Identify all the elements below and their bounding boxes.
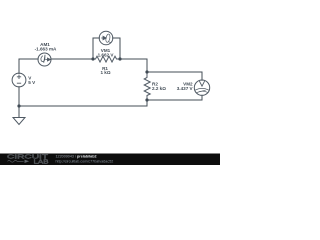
wire VM2 bottom down then left to node D bbox=[147, 95, 202, 100]
wire V1 top to AM1 left bbox=[19, 59, 38, 74]
watermark bar bbox=[0, 154, 220, 166]
resistor R2 bbox=[144, 72, 150, 100]
wire VM1 right lead down to node B bbox=[113, 38, 120, 59]
ground bbox=[13, 118, 25, 125]
svg-text:1 kΩ: 1 kΩ bbox=[100, 70, 110, 75]
svg-text:-1.663 mA: -1.663 mA bbox=[35, 47, 57, 52]
svg-text:1.662 V: 1.662 V bbox=[98, 52, 115, 57]
svg-text:5 V: 5 V bbox=[28, 80, 36, 85]
wire node D jog down and left to ground node bbox=[19, 100, 147, 106]
resistor R1 bbox=[93, 56, 120, 62]
node A junction dot bbox=[91, 57, 94, 60]
voltmeter VM1 bbox=[99, 31, 113, 45]
ground node junction dot bbox=[17, 104, 20, 107]
node B junction dot bbox=[118, 57, 121, 60]
wire node C right to VM2 top bbox=[147, 72, 202, 80]
svg-text:3.437 V: 3.437 V bbox=[177, 86, 194, 91]
node D junction dot bbox=[145, 98, 148, 101]
svg-text:http://circuitlab.com/c77batva: http://circuitlab.com/c77batva6ac52 bbox=[56, 159, 114, 163]
wire ground stem bbox=[18, 106, 20, 118]
svg-text:122009043 / prelab/lab2: 122009043 / prelab/lab2 bbox=[56, 154, 97, 158]
svg-text:LAB: LAB bbox=[34, 160, 49, 166]
ammeter AM1 bbox=[38, 53, 51, 66]
svg-text:2.2 kΩ: 2.2 kΩ bbox=[152, 86, 166, 91]
voltmeter VM2 bbox=[194, 80, 209, 95]
CircuitLab logo bbox=[7, 154, 49, 165]
wire V1 bottom to ground node bbox=[18, 87, 20, 106]
wire node A up to VM1 left lead bbox=[93, 38, 99, 59]
wire node B right then down to node C bbox=[120, 59, 147, 72]
voltage source V1 bbox=[12, 73, 26, 87]
wire AM1 right to node A bbox=[51, 58, 93, 60]
node C junction dot bbox=[145, 70, 148, 73]
